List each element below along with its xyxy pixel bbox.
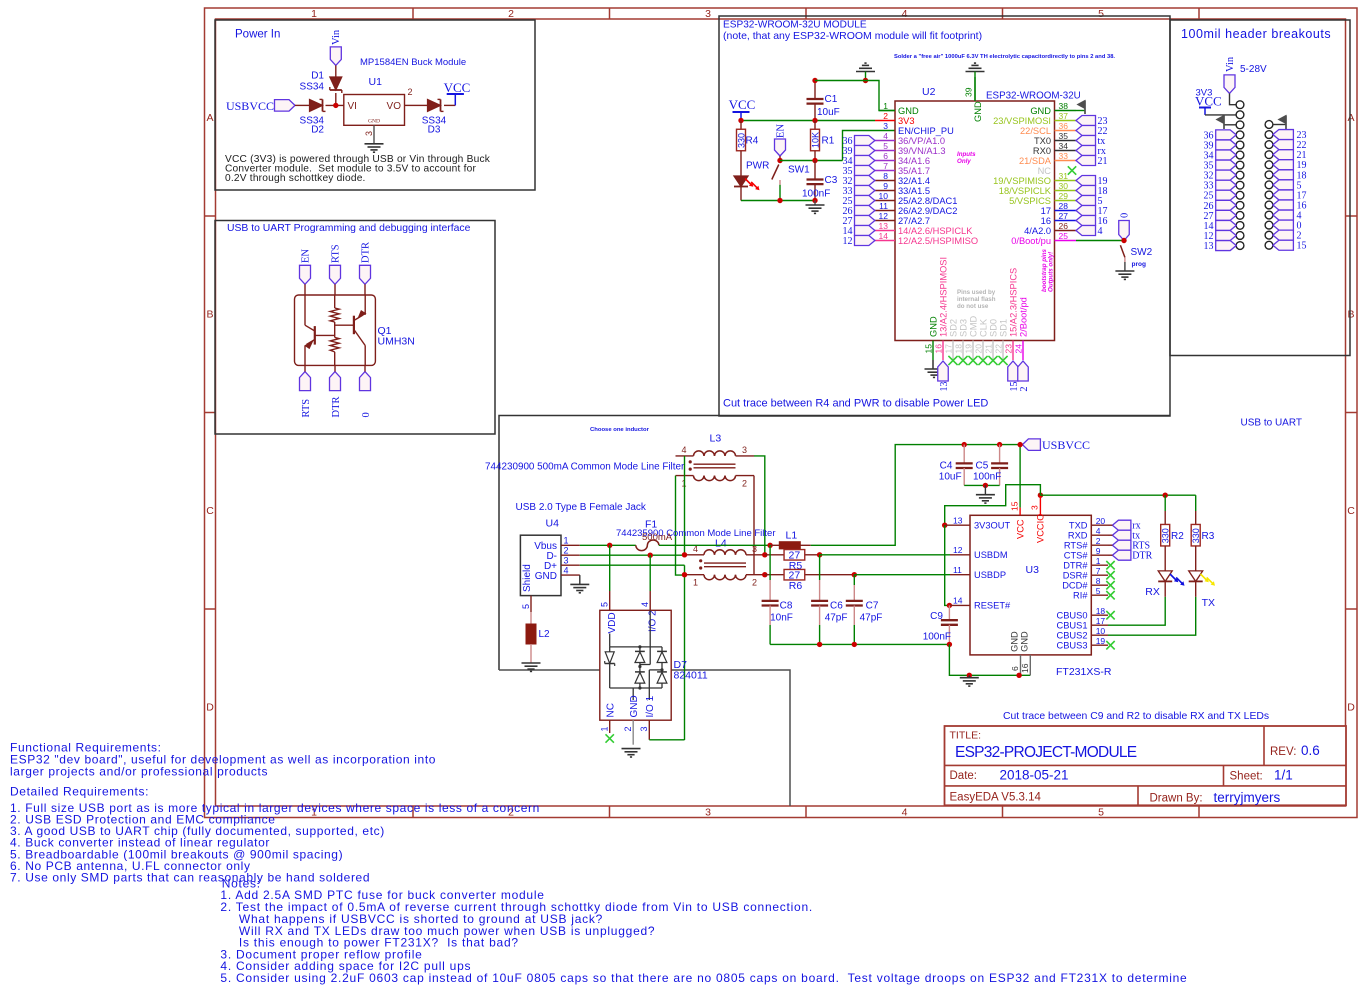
svg-text:EasyEDA V5.3.14: EasyEDA V5.3.14 <box>950 792 1042 804</box>
svg-text:FT231XS-R: FT231XS-R <box>1056 666 1112 678</box>
junction C4C5 gnd <box>983 483 988 488</box>
wire D1 to node <box>335 93 337 105</box>
net port 15 (pin 23) <box>1008 361 1019 381</box>
svg-text:D: D <box>206 702 214 714</box>
svg-text:CBUS0: CBUS0 <box>1056 611 1087 621</box>
svg-text:Detailed Requirements:: Detailed Requirements: <box>10 785 149 799</box>
ground L2 <box>522 662 541 664</box>
gnd flag pin 38 <box>1076 110 1085 112</box>
U2 pin 27 16 <box>1055 220 1077 222</box>
svg-text:CTS#: CTS# <box>1064 551 1089 561</box>
junction L4 pin3 <box>762 552 767 557</box>
PWR LED arrows <box>745 179 752 186</box>
U3 pin 17 CBUS1 <box>1091 624 1108 626</box>
svg-text:NC: NC <box>605 703 616 717</box>
header breakouts section box <box>1170 20 1350 356</box>
net port EN top <box>300 265 311 284</box>
svg-text:GND: GND <box>1030 106 1051 116</box>
svg-text:Only: Only <box>957 158 971 165</box>
svg-text:RESET#: RESET# <box>974 601 1011 611</box>
svg-text:2: 2 <box>1096 536 1101 546</box>
svg-text:5: 5 <box>521 604 531 609</box>
net port 27 header left <box>1216 210 1237 220</box>
svg-text:0: 0 <box>1120 213 1131 218</box>
net port 14 (pin 13) <box>855 226 875 236</box>
net port 2 header right <box>1273 230 1294 240</box>
ground D7 <box>622 748 641 750</box>
junction gnd row <box>967 673 972 678</box>
wire D+ <box>580 564 685 566</box>
wire Vbus <box>580 544 636 546</box>
svg-text:100nF: 100nF <box>802 189 830 200</box>
svg-text:17: 17 <box>944 344 954 354</box>
FT231XS U3 body <box>970 515 1091 655</box>
svg-text:ESP32-PROJECT-MODULE: ESP32-PROJECT-MODULE <box>955 744 1137 761</box>
svg-text:13: 13 <box>953 515 963 525</box>
title block dividers <box>1263 726 1265 765</box>
wire R6 to USBDP <box>854 574 950 576</box>
wire rail down to gnd row <box>949 644 1030 675</box>
svg-text:17: 17 <box>1096 616 1106 626</box>
svg-text:330: 330 <box>1191 528 1201 543</box>
net port 33 (pin 9) <box>855 186 875 196</box>
svg-text:3V3: 3V3 <box>898 116 915 126</box>
U2 pin 37 23/VSPIMOSI <box>1055 120 1077 122</box>
svg-text:28: 28 <box>1059 201 1069 211</box>
net port 17 (pin 28) <box>1076 206 1096 216</box>
U3 pin 11 USBDP <box>950 574 970 576</box>
svg-text:VDD: VDD <box>607 612 618 633</box>
wire D3 to VCC <box>444 104 455 106</box>
U2 pin 14 12/A2.5/HSPIMISO <box>875 240 895 242</box>
svg-text:C9: C9 <box>930 611 943 622</box>
junction pin6 <box>1016 673 1021 678</box>
svg-text:Drawn By:: Drawn By: <box>1150 793 1203 805</box>
junction R6 out <box>852 572 857 577</box>
capacitor C8 10nF <box>769 545 771 580</box>
svg-text:U2: U2 <box>922 86 936 98</box>
svg-text:4: 4 <box>883 131 888 141</box>
U1 pin 2 stub <box>405 104 417 106</box>
wire CBUS1 to RX LED <box>1108 597 1165 625</box>
net port Vin <box>330 47 341 66</box>
U3 pin 15 VCC <box>1019 508 1021 516</box>
net port DTR <box>1112 550 1131 560</box>
svg-text:13/A2.4/HSPIMOSI: 13/A2.4/HSPIMOSI <box>938 257 948 337</box>
D7 IO1 to right junction <box>649 669 662 671</box>
svg-text:L3: L3 <box>710 433 722 445</box>
svg-text:CBUS1: CBUS1 <box>1056 621 1087 631</box>
svg-text:USBDP: USBDP <box>974 570 1006 580</box>
capacitor C1 10uF <box>814 81 816 100</box>
wire USBVCC to D2 <box>295 104 310 106</box>
svg-text:5: 5 <box>883 141 888 151</box>
U2 pin 29 5/VSPICS <box>1055 200 1077 202</box>
wire gnd flag to header pin3 <box>1224 124 1236 126</box>
gnd flag header right <box>1285 116 1287 130</box>
svg-text:25: 25 <box>1059 231 1069 241</box>
capacitor C9 100nF <box>948 605 950 620</box>
net port tx <box>1112 530 1131 540</box>
svg-text:terryjmyers: terryjmyers <box>1214 790 1281 805</box>
net port 0 header right <box>1273 220 1294 230</box>
svg-text:1: 1 <box>311 8 317 20</box>
svg-text:RI#: RI# <box>1073 591 1088 601</box>
capacitor C4 10uF <box>963 445 965 464</box>
U2 pin 38 GND <box>1055 110 1077 112</box>
svg-text:L2: L2 <box>539 629 551 640</box>
svg-text:14/A2.6/HSPICLK: 14/A2.6/HSPICLK <box>898 226 973 236</box>
wire Vbus after fuse <box>659 544 770 546</box>
net port 18 header right <box>1273 170 1294 180</box>
wire Vin to D1 <box>335 65 337 77</box>
wire Q1 to DTR port <box>334 365 336 371</box>
svg-text:15/A2.3/HSPICS: 15/A2.3/HSPICS <box>1008 268 1018 337</box>
junction Vbus-D7 <box>607 543 612 548</box>
junction C9 rail <box>947 642 952 647</box>
net port 5 header right <box>1273 180 1294 190</box>
net port Vin header <box>1224 75 1235 94</box>
resistor R4 330 <box>740 121 742 130</box>
ferrite bead L2 <box>530 612 532 624</box>
net port 21 (pin 33) <box>1076 156 1096 166</box>
svg-text:GND: GND <box>973 101 983 122</box>
svg-text:U4: U4 <box>546 518 560 530</box>
ground U4 <box>570 583 589 585</box>
svg-text:SD3: SD3 <box>958 319 968 337</box>
wire SW2 to ground <box>1124 262 1126 271</box>
svg-text:A: A <box>206 112 213 124</box>
U3 pin 9 CTS# <box>1091 554 1108 556</box>
svg-text:18: 18 <box>954 344 964 354</box>
svg-text:(note, that any ESP32-WROOM mo: (note, that any ESP32-WROOM module will … <box>723 30 982 42</box>
USB jack U4 box <box>520 535 561 595</box>
net port 35 (pin 7) <box>855 166 875 176</box>
net port rx <box>1112 520 1131 530</box>
svg-text:VCC: VCC <box>1016 519 1026 539</box>
U2 pin 4 36/VP/A1.0 <box>875 140 895 142</box>
svg-text:21/SDA: 21/SDA <box>1019 156 1052 166</box>
svg-text:DSR#: DSR# <box>1063 571 1089 581</box>
wire D- <box>580 554 685 556</box>
svg-text:5: 5 <box>1098 8 1104 20</box>
net port 19 header right <box>1273 160 1294 170</box>
svg-text:13: 13 <box>939 382 950 392</box>
U2 pin 5 39/VN/A1.3 <box>875 150 895 152</box>
wire Q1 to 0 port <box>364 365 366 371</box>
net port 23 header right <box>1273 130 1294 140</box>
wire L3 pin2 down <box>753 476 755 575</box>
net port 18 (pin 30) <box>1076 186 1096 196</box>
wire D2 to U1 VI <box>326 104 344 106</box>
svg-text:34/A1.6: 34/A1.6 <box>898 156 930 166</box>
svg-text:23/VSPIMOSI: 23/VSPIMOSI <box>993 116 1051 126</box>
svg-text:DCD#: DCD# <box>1062 581 1088 591</box>
svg-text:Vin: Vin <box>331 29 342 45</box>
svg-text:VO: VO <box>387 101 402 112</box>
no-connect X D7 pin1 <box>606 734 614 742</box>
svg-text:47pF: 47pF <box>825 613 848 624</box>
net port 4 (pin 26) <box>1076 226 1096 236</box>
U4 pin stubs <box>561 544 580 546</box>
junction C6 rail <box>817 642 822 647</box>
svg-text:C1: C1 <box>825 94 838 105</box>
D7 pin IO2 <box>649 591 651 610</box>
header P1 circles <box>1236 101 1244 109</box>
svg-text:4: 4 <box>1098 226 1103 237</box>
wire RTS to Q1 <box>334 284 336 295</box>
net port 13 header left <box>1216 241 1237 251</box>
svg-text:4/A2.0: 4/A2.0 <box>1024 226 1051 236</box>
svg-text:9: 9 <box>1096 546 1101 556</box>
svg-text:USB to UART Programming and de: USB to UART Programming and debugging in… <box>227 223 471 234</box>
svg-text:10nF: 10nF <box>770 613 793 624</box>
resistor R3 330 <box>1195 495 1197 511</box>
junction D+ L4 pin1 <box>682 572 687 577</box>
svg-text:C4: C4 <box>940 461 953 472</box>
svg-text:R3: R3 <box>1202 531 1215 542</box>
svg-text:23: 23 <box>1004 344 1014 354</box>
svg-text:R4: R4 <box>746 136 759 147</box>
svg-text:15: 15 <box>924 344 934 354</box>
net port 33 header left <box>1216 180 1237 190</box>
svg-text:U1: U1 <box>369 76 383 88</box>
svg-text:GND: GND <box>629 695 640 717</box>
U2 pin 25 0/Boot/pu <box>1055 240 1077 242</box>
ground top <box>856 71 875 73</box>
wire EN node rail <box>780 160 843 162</box>
svg-text:35/A1.7: 35/A1.7 <box>898 166 930 176</box>
svg-text:D3: D3 <box>428 125 441 136</box>
net port 32 header left <box>1216 170 1237 180</box>
junction node D1-D2-VI <box>333 103 338 108</box>
shield wire <box>499 670 790 806</box>
pin39 GND top <box>974 77 976 101</box>
U4 gnd wire <box>579 575 581 584</box>
net port RTS bottom <box>300 372 311 391</box>
U2 pin 33 21/SDA <box>1055 160 1077 162</box>
net port 12 (pin 14) <box>855 236 875 246</box>
U2 pin 10 25/A2.8/DAC1 <box>875 200 895 202</box>
svg-text:I/O 1: I/O 1 <box>645 695 656 717</box>
svg-text:16: 16 <box>1041 216 1051 226</box>
wire EN to Q1 <box>304 284 306 295</box>
svg-text:12/A2.5/HSPIMISO: 12/A2.5/HSPIMISO <box>898 236 978 246</box>
net port 39 header left <box>1216 140 1237 150</box>
wire Vin to header pin1 <box>1230 93 1237 104</box>
U3 pin 14 RESET# <box>947 603 952 608</box>
ground bottom left <box>814 201 816 206</box>
junction R1-EN <box>812 158 817 163</box>
svg-text:47pF: 47pF <box>860 613 883 624</box>
wire D+ down to D7 IO1 <box>684 565 686 740</box>
junction Vbus L1 <box>767 543 772 548</box>
svg-text:2: 2 <box>752 578 757 588</box>
svg-text:36/VP/A1.0: 36/VP/A1.0 <box>898 136 945 146</box>
gnd flag header left <box>1223 116 1225 130</box>
svg-text:9: 9 <box>883 181 888 191</box>
U2 pin 17 SD2 <box>952 341 954 361</box>
svg-text:RTS#: RTS# <box>1064 541 1088 551</box>
svg-text:USBDM: USBDM <box>974 550 1008 560</box>
wire EN rail to pin3 <box>843 131 896 161</box>
svg-text:2: 2 <box>408 87 413 97</box>
wire R4 to PWR LED <box>740 151 742 176</box>
svg-text:7: 7 <box>1096 566 1101 576</box>
ground SW2 <box>1115 270 1134 272</box>
svg-text:3: 3 <box>742 445 747 455</box>
frame column ticks <box>412 8 414 19</box>
U2 pin 19 CMD <box>972 341 974 361</box>
svg-text:27/A2.7: 27/A2.7 <box>898 216 930 226</box>
svg-text:do not use: do not use <box>957 303 989 310</box>
net port 27 (pin 12) <box>855 216 875 226</box>
svg-text:USBVCC: USBVCC <box>1042 438 1090 452</box>
svg-text:C5: C5 <box>976 461 989 472</box>
svg-text:4: 4 <box>1096 526 1101 536</box>
svg-text:4: 4 <box>640 602 650 607</box>
svg-text:1: 1 <box>883 101 888 111</box>
svg-text:RTS: RTS <box>301 399 312 418</box>
svg-text:33: 33 <box>1059 151 1069 161</box>
svg-text:Solder a "free air" 1000uF 6.3: Solder a "free air" 1000uF 6.3V TH elect… <box>894 54 1115 60</box>
net port 2 (pin 24) <box>1018 361 1029 381</box>
D7 zener diode <box>605 652 614 664</box>
net port 16 header right <box>1273 200 1294 210</box>
U2 pin 13 14/A2.6/HSPICLK <box>875 230 895 232</box>
svg-text:100mil header breakouts: 100mil header breakouts <box>1181 27 1331 41</box>
resistor R6 27 <box>765 574 784 576</box>
wire C4 C5 gnd <box>964 484 999 486</box>
svg-text:6: 6 <box>883 151 888 161</box>
wire USBVCC to VCC pin <box>1019 445 1021 508</box>
svg-text:Choose one inductor: Choose one inductor <box>590 427 650 433</box>
wire CBUS2 to TX LED <box>1108 597 1196 635</box>
net port 14 header left <box>1216 220 1237 230</box>
U2 pin 28 17 <box>1055 210 1077 212</box>
svg-text:GND: GND <box>1010 631 1020 652</box>
U2 pin 9 33/A1.5 <box>875 190 895 192</box>
svg-text:Outputs only!: Outputs only! <box>1048 252 1055 292</box>
U3 pin 6 GND <box>1020 655 1022 675</box>
svg-text:L4: L4 <box>715 538 727 550</box>
no-connect X pin 32 <box>1068 166 1076 174</box>
svg-text:744235900 Common Mode Line Fil: 744235900 Common Mode Line Filter <box>616 528 775 539</box>
svg-text:GND: GND <box>898 106 919 116</box>
svg-text:2: 2 <box>623 726 633 731</box>
svg-text:20: 20 <box>1096 516 1106 526</box>
svg-text:26/A2.9/DAC2: 26/A2.9/DAC2 <box>898 206 957 216</box>
svg-text:12: 12 <box>953 545 963 555</box>
svg-text:14: 14 <box>879 231 889 241</box>
svg-text:PWR: PWR <box>746 161 769 172</box>
U2 pin 24 2/Boot/pd <box>1022 341 1024 361</box>
svg-text:15: 15 <box>1297 241 1307 252</box>
RX LED arrows blue <box>1170 574 1177 581</box>
U3 pin 20 TXD <box>1091 524 1108 526</box>
junction gnd top <box>863 78 868 83</box>
ESP32 chip U2 body <box>895 101 1055 341</box>
svg-text:R1: R1 <box>822 136 835 147</box>
U2 pin 15 GND <box>932 341 934 361</box>
sheet frame outer border <box>205 8 1358 818</box>
svg-text:12: 12 <box>843 236 853 247</box>
svg-text:1: 1 <box>693 578 698 588</box>
net port 19 (pin 31) <box>1076 176 1096 186</box>
svg-text:DTR: DTR <box>1132 551 1152 562</box>
svg-text:39/VN/A1.3: 39/VN/A1.3 <box>898 146 946 156</box>
net port 5 (pin 29) <box>1076 196 1096 206</box>
net port RTS <box>1112 540 1131 550</box>
svg-text:29: 29 <box>1059 191 1069 201</box>
U3 pin 2 RTS# <box>1091 544 1108 546</box>
U2 pin 18 SD3 <box>962 341 964 361</box>
svg-text:3: 3 <box>705 807 711 819</box>
wire gnd to pin1 <box>866 81 896 111</box>
U2 pin 22 SD1 <box>1002 341 1004 361</box>
svg-text:11: 11 <box>879 201 888 211</box>
U2 pin 12 27/A2.7 <box>875 220 895 222</box>
net port 36 (pin 4) <box>855 136 875 146</box>
net port 34 (pin 6) <box>855 156 875 166</box>
svg-text:5: 5 <box>1096 586 1101 596</box>
wire D7 IO2 riser <box>649 555 651 591</box>
net port 23 (pin 37) <box>1076 116 1096 126</box>
U2 pin 31 19/VSPIMISO <box>1055 180 1077 182</box>
svg-text:C: C <box>206 505 214 517</box>
junction EN-SW1 <box>777 158 782 163</box>
svg-text:CBUS2: CBUS2 <box>1056 631 1087 641</box>
net port DTR top <box>360 265 371 284</box>
capacitor C6 47pF <box>819 555 821 580</box>
header P2 circles <box>1265 121 1273 129</box>
svg-text:3: 3 <box>564 555 569 565</box>
svg-text:RTS: RTS <box>331 244 342 263</box>
wire pin1 stub <box>879 110 895 112</box>
svg-text:2: 2 <box>883 111 888 121</box>
net port RTS top <box>330 265 341 284</box>
junction D- D7 <box>648 553 653 558</box>
net port 26 (pin 11) <box>855 206 875 216</box>
buck module U1 box <box>344 95 405 126</box>
net port 26 header left <box>1216 200 1237 210</box>
svg-text:REV:: REV: <box>1270 746 1296 758</box>
svg-text:1: 1 <box>1096 556 1101 566</box>
U2 pin 7 35/A1.7 <box>875 170 895 172</box>
svg-text:internal flash: internal flash <box>957 296 996 303</box>
svg-text:10uF: 10uF <box>939 472 962 483</box>
svg-text:EN: EN <box>776 124 787 138</box>
net port 25 header left <box>1216 190 1237 200</box>
wire L3 pin4 to D- node <box>684 456 686 555</box>
U2 pin 21 SD0 <box>992 341 994 361</box>
svg-text:TX: TX <box>1202 597 1215 609</box>
svg-text:SW2: SW2 <box>1131 247 1153 258</box>
U2 pin 35 TX0 <box>1055 140 1077 142</box>
svg-text:3: 3 <box>705 8 711 20</box>
svg-text:2: 2 <box>508 8 514 20</box>
USB section box outline <box>499 416 1170 671</box>
junction C3 gnd <box>812 198 817 203</box>
wire DTR to Q1 <box>364 284 366 295</box>
ground pin39 <box>966 71 985 73</box>
svg-text:22: 22 <box>994 344 1004 354</box>
D7 internals <box>609 634 611 647</box>
svg-text:0.2V through schottkey diode.: 0.2V through schottkey diode. <box>225 173 366 184</box>
svg-text:USB to UART: USB to UART <box>1241 418 1303 429</box>
ESP32 module section box <box>719 16 1170 416</box>
svg-text:VCC: VCC <box>444 80 471 95</box>
